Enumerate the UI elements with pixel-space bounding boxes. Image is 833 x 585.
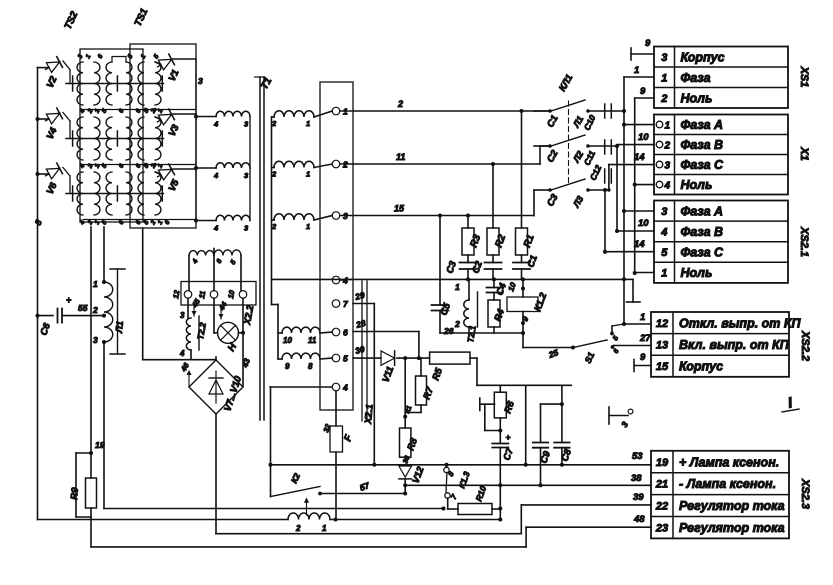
svg-text:3: 3: [93, 335, 98, 345]
svg-text:15: 15: [394, 204, 405, 214]
svg-text:3: 3: [198, 76, 203, 86]
svg-text:11: 11: [396, 152, 405, 162]
svg-text:8: 8: [308, 362, 313, 371]
svg-text:1: 1: [93, 279, 98, 289]
svg-text:19: 19: [656, 457, 669, 469]
svg-text:5: 5: [661, 247, 668, 259]
svg-text:13: 13: [656, 339, 668, 351]
svg-text:38: 38: [631, 473, 642, 484]
svg-text:Фаза: Фаза: [681, 71, 711, 85]
svg-text:Фаза С: Фаза С: [681, 246, 725, 260]
svg-text:1: 1: [322, 524, 327, 533]
svg-text:21: 21: [655, 479, 668, 491]
svg-text:48: 48: [633, 514, 645, 525]
svg-text:Ноль: Ноль: [681, 178, 713, 192]
svg-text:4: 4: [213, 171, 219, 180]
svg-text:1: 1: [640, 312, 645, 323]
svg-text:4: 4: [664, 181, 671, 192]
svg-text:1: 1: [306, 170, 310, 179]
svg-text:Регулятор тока: Регулятор тока: [679, 499, 785, 513]
svg-text:9: 9: [640, 352, 646, 363]
svg-text:ХS2.3: ХS2.3: [799, 478, 811, 509]
svg-text:ХS1: ХS1: [798, 66, 810, 88]
svg-text:23: 23: [655, 522, 668, 534]
svg-text:3: 3: [343, 211, 348, 221]
svg-text:12: 12: [656, 318, 668, 330]
svg-text:14: 14: [634, 239, 645, 250]
svg-text:Вкл. выпр. от КП: Вкл. выпр. от КП: [679, 338, 790, 352]
svg-text:1: 1: [665, 121, 671, 132]
svg-text:2: 2: [92, 305, 98, 315]
svg-text:ХS2.1: ХS2.1: [798, 226, 810, 257]
svg-text:2: 2: [295, 524, 301, 533]
svg-text:4: 4: [342, 383, 348, 393]
svg-text:Л1: Л1: [114, 321, 126, 335]
svg-text:Ноль: Ноль: [681, 91, 713, 105]
svg-text:22: 22: [655, 501, 668, 513]
svg-text:6: 6: [343, 328, 348, 338]
svg-text:Корпус: Корпус: [679, 360, 723, 374]
svg-text:3: 3: [661, 52, 667, 64]
svg-text:2: 2: [397, 99, 403, 109]
svg-text:4: 4: [179, 349, 185, 358]
svg-text:1: 1: [455, 282, 460, 292]
svg-text:Фаза С: Фаза С: [681, 158, 725, 172]
svg-text:53: 53: [632, 451, 643, 462]
svg-text:14: 14: [634, 152, 645, 163]
svg-text:2: 2: [660, 93, 667, 105]
svg-text:Фаза А: Фаза А: [681, 204, 724, 218]
svg-text:9: 9: [285, 362, 290, 371]
svg-text:1: 1: [343, 107, 348, 117]
svg-text:26: 26: [443, 326, 454, 336]
svg-text:1: 1: [661, 72, 667, 84]
svg-text:4: 4: [660, 226, 667, 238]
svg-text:11: 11: [197, 290, 207, 299]
svg-text:+: +: [66, 295, 72, 305]
svg-text:3: 3: [180, 311, 185, 320]
svg-text:Фаза В: Фаза В: [681, 225, 724, 239]
svg-text:1: 1: [634, 65, 639, 76]
svg-text:10: 10: [638, 218, 649, 229]
svg-text:55: 55: [78, 303, 88, 313]
svg-text:Х1: Х1: [798, 146, 810, 160]
svg-text:9: 9: [645, 38, 651, 49]
svg-text:1: 1: [306, 222, 310, 231]
svg-text:5: 5: [343, 354, 348, 364]
svg-text:27: 27: [639, 333, 651, 344]
svg-text:2: 2: [342, 160, 348, 170]
svg-text:1: 1: [661, 268, 667, 280]
svg-text:Корпус: Корпус: [681, 50, 725, 64]
svg-text:11: 11: [308, 336, 317, 345]
svg-text:Фаза А: Фаза А: [681, 118, 724, 132]
svg-text:4: 4: [213, 120, 219, 129]
svg-text:+: +: [506, 432, 511, 442]
svg-text:Фаза В: Фаза В: [681, 138, 724, 152]
svg-text:2: 2: [664, 141, 671, 152]
svg-text:10: 10: [638, 132, 649, 143]
svg-text:R9: R9: [69, 486, 81, 500]
svg-text:Откл. выпр. от КП: Откл. выпр. от КП: [679, 316, 802, 330]
svg-text:2: 2: [454, 319, 460, 329]
svg-text:19: 19: [95, 440, 105, 450]
svg-text:9: 9: [640, 86, 646, 97]
svg-text:Ноль: Ноль: [681, 266, 713, 280]
svg-text:39: 39: [633, 492, 644, 503]
svg-text:ХS2.2: ХS2.2: [799, 330, 811, 361]
svg-text:1: 1: [306, 119, 310, 128]
svg-text:Регулятор тока: Регулятор тока: [679, 521, 785, 535]
svg-text:10: 10: [283, 336, 292, 345]
svg-text:3: 3: [661, 206, 667, 218]
svg-text:3: 3: [665, 161, 671, 172]
svg-text:+ Лампа ксенон.: + Лампа ксенон.: [679, 455, 779, 469]
svg-text:4: 4: [213, 224, 219, 233]
svg-text:- Лампа ксенон.: - Лампа ксенон.: [679, 477, 776, 491]
svg-text:15: 15: [656, 361, 669, 373]
